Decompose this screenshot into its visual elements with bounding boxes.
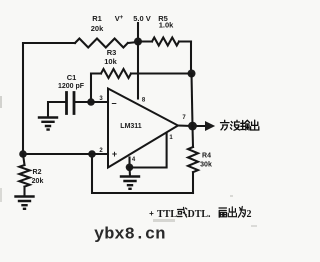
glyph 扇 (219, 208, 227, 217)
node pin2 left junction (19, 150, 27, 158)
wire output stub and lead (178, 124, 206, 127)
glyph 波 (231, 120, 240, 130)
resistor R3 (101, 69, 131, 78)
node pin2 right junction (88, 150, 96, 158)
svg-text:R2: R2 (33, 169, 42, 176)
wire bottom rail (92, 154, 193, 193)
svg-text:LM311: LM311 (120, 123, 142, 130)
wire C1 left lead (48, 102, 67, 117)
wire V+ stub (137, 23, 139, 41)
node V+ junction (134, 38, 142, 46)
wire pin1 strobe to pin4 (130, 134, 167, 168)
svg-text:TTL: TTL (157, 209, 177, 220)
wire V+ to pin8 (137, 42, 139, 99)
op-amp U1 LM311 triangle (108, 89, 178, 168)
node output junction (188, 122, 197, 131)
resistor R1 (75, 39, 128, 48)
wire R3 left drop to pin3 node (91, 74, 101, 103)
wire R2 bottom lead (23, 187, 25, 196)
capacitor C1 (67, 93, 75, 114)
svg-text:20k: 20k (91, 24, 104, 33)
wire output node down to R4 (191, 126, 194, 147)
wire pin4 stub (128, 158, 130, 168)
wire pin4 ground lead (128, 167, 131, 176)
glyph 输 (241, 120, 250, 130)
svg-text:R1: R1 (92, 14, 102, 23)
wire R5 drop (190, 42, 192, 74)
ground pin4 (121, 177, 139, 189)
glyph 方 (221, 120, 230, 130)
node pin4 junction (126, 164, 134, 172)
svg-text:1200 pF: 1200 pF (58, 83, 85, 90)
wire pin2 input (23, 153, 108, 155)
faint scan specks (0, 96, 257, 227)
wire junction to output node (192, 74, 193, 127)
glyph 出 (second) (228, 207, 236, 217)
node R5/R3 junction (188, 70, 196, 78)
node pin3 junction (87, 98, 95, 106)
glyph 或 (177, 207, 187, 217)
glyph 为 (238, 207, 245, 218)
svg-text:C1: C1 (67, 73, 77, 82)
svg-text:20k: 20k (32, 178, 44, 185)
wire R3 right segment (131, 72, 192, 74)
svg-text:−: − (111, 99, 116, 109)
wire V+ to R5 (138, 40, 191, 42)
label output 方波输出 (square wave output) (221, 120, 259, 130)
svg-text:30k: 30k (200, 162, 212, 169)
wire R2 top lead (23, 154, 25, 165)
resistor R2 (19, 165, 29, 187)
svg-text:+: + (112, 149, 117, 159)
wire top left segment (23, 42, 138, 43)
svg-text:10k: 10k (104, 57, 117, 66)
svg-text:2: 2 (247, 209, 252, 220)
wire left rail (22, 43, 24, 154)
svg-text:DTL.: DTL. (188, 209, 212, 220)
wire output arrow head (206, 122, 215, 130)
ground R2 (16, 197, 34, 209)
svg-text:5.0 V: 5.0 V (133, 14, 151, 23)
resistor R4 (188, 147, 198, 172)
wire pin3 input (75, 101, 109, 103)
svg-text:ybx8.cn: ybx8.cn (94, 226, 165, 245)
svg-text:R4: R4 (202, 153, 211, 160)
svg-text:R3: R3 (107, 48, 117, 57)
svg-text:1.0k: 1.0k (159, 21, 174, 30)
svg-text:+: + (149, 209, 154, 218)
resistor R5 (152, 38, 179, 46)
ground C1 (39, 118, 57, 130)
wire R4 bottom to bottom rail (192, 172, 194, 193)
glyph 出 (251, 120, 259, 130)
